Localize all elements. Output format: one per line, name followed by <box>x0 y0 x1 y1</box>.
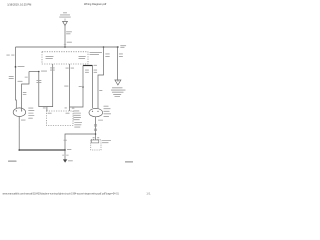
arrow caption text <box>112 86 123 89</box>
svg-text:1/16/2019, 10:25 PM: 1/16/2019, 10:25 PM <box>7 2 31 6</box>
svg-text:www.manualslib.com/manual/3184: www.manualslib.com/manual/318430/daytime… <box>3 192 120 195</box>
inline connector ticks <box>94 125 97 127</box>
wire: ground branch horizontal to left <box>65 134 96 150</box>
svg-text:1/1: 1/1 <box>146 192 151 195</box>
wire: L1 ground lead <box>18 117 20 151</box>
wire A color label <box>9 75 14 78</box>
ground bus heavy wire <box>19 149 65 151</box>
U1 inside right text <box>79 55 86 58</box>
U1 name text right <box>90 51 103 54</box>
L2 name text <box>104 106 112 117</box>
junction dot ground join <box>95 133 97 135</box>
power bus wire <box>16 46 120 48</box>
lower dashed box U2 <box>46 111 73 126</box>
wire: bus node C down to off-page arrow <box>117 47 119 80</box>
page footnote right <box>125 161 133 162</box>
U1 inside left text <box>46 55 54 58</box>
page footnote left <box>8 161 17 162</box>
U3 inner bar <box>92 140 99 143</box>
junction dot node C <box>117 46 119 48</box>
off-page arrow A1 <box>115 80 121 85</box>
svg-text:Wiring Diagram.pdf: Wiring Diagram.pdf <box>84 2 106 6</box>
wire: splice S1 drop to lower box <box>39 72 47 112</box>
wire B: splice down-left to left lamp right pin <box>22 72 29 109</box>
junction dot node B <box>103 46 105 48</box>
splice label right of bus end <box>120 44 126 47</box>
connector bar under U1 right <box>83 65 93 67</box>
U2 pin texts inside <box>48 112 52 115</box>
dashed box: fuse/relay box U1 <box>42 52 88 64</box>
wire: U1 pin 2 down to lower box <box>69 64 71 111</box>
wire: bar right pin down to right lamp pin 1 <box>92 66 94 109</box>
right lamp L2 (oval) <box>89 108 103 116</box>
wire: L2 ground lead down <box>95 117 97 140</box>
pin number labels <box>93 136 95 139</box>
wire: bar left pin down, joins pin2 wire <box>70 66 84 108</box>
wire: U1 pin 1 down to lower box <box>47 64 53 107</box>
node label HOT AT ALL TIMES text block <box>59 12 71 19</box>
U3 name text <box>102 139 111 142</box>
junction dot right <box>64 149 66 151</box>
in-line connector square on wire A <box>15 66 17 68</box>
U2 name text right <box>73 111 82 128</box>
L1 name text <box>28 108 34 119</box>
connector marker C1 <box>67 41 72 44</box>
wire from fuse to bus <box>64 26 66 47</box>
connector label C3 <box>43 107 46 110</box>
dashed box: ground joint connector U3 <box>91 139 101 150</box>
wire label (color code) <box>66 30 72 33</box>
connector C2 labels both sides <box>6 54 9 57</box>
ground symbol G1 <box>63 159 67 162</box>
wire A: bus left end down to left lamp <box>15 47 18 108</box>
wire to ground <box>64 150 66 160</box>
junction dot left <box>18 149 20 151</box>
wire: bus node B down-jog to right lamp pin 2 <box>98 47 104 108</box>
left lamp L1 (oval) <box>13 108 25 117</box>
splice S1 with branch <box>29 71 39 73</box>
junction dot at fuse <box>64 46 66 48</box>
fuse F1 (triangle symbol) <box>63 21 68 26</box>
